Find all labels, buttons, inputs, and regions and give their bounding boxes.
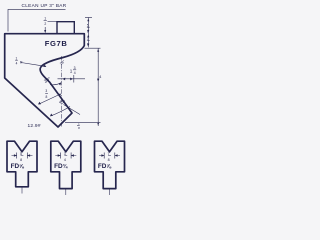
svg-text:3: 3 (74, 66, 76, 70)
svg-text:1: 1 (78, 122, 80, 126)
svg-text:FD⅝: FD⅝ (11, 163, 25, 170)
svg-text:12.9#: 12.9# (28, 123, 41, 129)
svg-text:8: 8 (87, 29, 89, 33)
svg-text:8: 8 (108, 158, 110, 162)
svg-text:FD⅞: FD⅞ (98, 163, 112, 170)
svg-text:5: 5 (20, 152, 22, 156)
svg-text:4: 4 (16, 61, 18, 65)
svg-text:3: 3 (45, 89, 47, 93)
svg-text:8: 8 (46, 95, 48, 99)
svg-text:45°: 45° (59, 100, 66, 105)
svg-text:5: 5 (87, 24, 89, 28)
svg-text:2: 2 (44, 22, 46, 26)
svg-text:8: 8 (20, 158, 22, 162)
svg-text:7: 7 (108, 152, 110, 156)
svg-text:8: 8 (87, 43, 89, 47)
svg-text:FD¾: FD¾ (54, 163, 69, 170)
svg-text:3: 3 (64, 152, 66, 156)
svg-text:4: 4 (74, 71, 76, 75)
svg-text:1: 1 (16, 57, 18, 61)
svg-text:4: 4 (64, 158, 66, 162)
svg-text:FG7B: FG7B (45, 39, 68, 48)
svg-text:R: R (20, 61, 23, 65)
svg-text:7: 7 (87, 37, 89, 41)
svg-text:CLEAN UP 3" BAR: CLEAN UP 3" BAR (22, 3, 67, 8)
svg-text:1: 1 (44, 17, 46, 21)
svg-text:1: 1 (70, 68, 73, 73)
svg-text:8: 8 (78, 126, 80, 130)
